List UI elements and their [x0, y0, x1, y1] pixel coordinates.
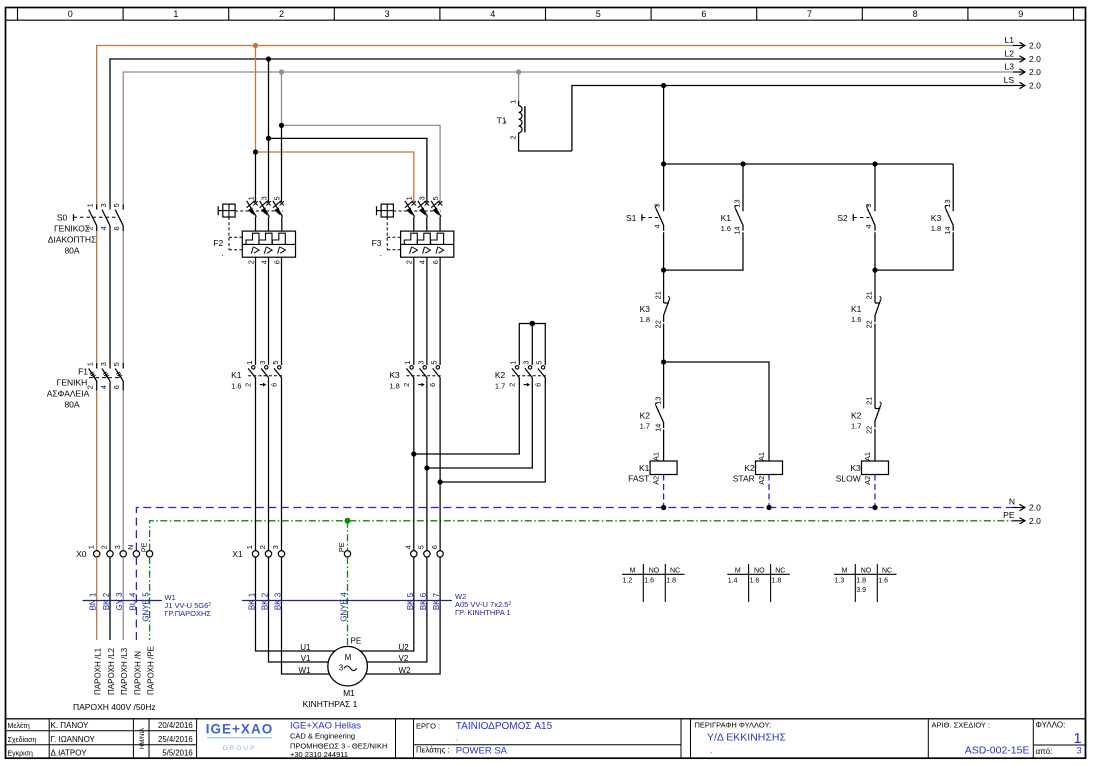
- svg-text:1.6: 1.6: [721, 224, 731, 233]
- svg-text:2: 2: [86, 226, 95, 230]
- svg-text:13: 13: [733, 199, 742, 207]
- cable W1 line: [83, 600, 163, 602]
- main switch S0 poles: [89, 210, 97, 226]
- svg-text:2: 2: [508, 135, 517, 139]
- svg-text:2: 2: [86, 385, 95, 389]
- svg-text:BK 7: BK 7: [432, 592, 441, 610]
- svg-text:W1: W1: [299, 666, 312, 675]
- svg-text:FAST: FAST: [628, 474, 649, 484]
- svg-text:1: 1: [86, 203, 95, 207]
- svg-text:1.6: 1.6: [231, 381, 241, 390]
- svg-text:4: 4: [404, 545, 413, 549]
- transformer T1: [519, 106, 522, 133]
- wire X1-2 to motor V1: [269, 557, 329, 662]
- svg-text:2: 2: [402, 383, 411, 387]
- wire L2 drop to F2/F3: [268, 59, 270, 138]
- wire F2 to K1: [255, 257, 257, 365]
- svg-text:L2: L2: [1005, 49, 1015, 59]
- svg-text:K3: K3: [389, 370, 400, 380]
- wire X0 to supply /N: [135, 557, 137, 640]
- wire L1 bus: [97, 46, 1013, 205]
- wire F1 to X0 /L1: [96, 391, 98, 551]
- svg-text:από:: από:: [1036, 747, 1053, 756]
- svg-text:LS: LS: [1004, 75, 1015, 85]
- wire X0 to supply /L1: [96, 557, 98, 640]
- wire X1-4 to motor U2: [360, 557, 414, 651]
- svg-text:9: 9: [1018, 9, 1023, 19]
- svg-text:S0: S0: [57, 212, 68, 222]
- svg-text:BK 2: BK 2: [261, 592, 270, 610]
- svg-text:BU 4: BU 4: [128, 592, 137, 610]
- svg-text:2: 2: [279, 9, 284, 19]
- svg-text:T1: T1: [497, 116, 507, 126]
- svg-text:ΠΑΡΟΧΗ /N: ΠΑΡΟΧΗ /N: [133, 651, 142, 695]
- title block: [6, 719, 1086, 758]
- svg-text:CAD & Engineering: CAD & Engineering: [290, 731, 355, 740]
- wire S2 riser: [874, 164, 876, 211]
- svg-text:4: 4: [99, 385, 108, 389]
- svg-text:6: 6: [273, 260, 282, 264]
- svg-text:1.6: 1.6: [750, 577, 760, 584]
- wire S0 to F1 phase L2: [109, 231, 111, 363]
- node branch S1: [661, 161, 666, 166]
- svg-text:6: 6: [431, 260, 440, 264]
- wire K3-14 down: [875, 232, 953, 270]
- svg-text:NC: NC: [670, 567, 680, 574]
- svg-text:M: M: [735, 567, 741, 574]
- svg-text:3.9: 3.9: [856, 587, 866, 594]
- svg-text:4: 4: [864, 224, 873, 228]
- wire F1 to X0 /L3: [122, 391, 124, 551]
- svg-text:22: 22: [865, 320, 874, 328]
- svg-text:5: 5: [596, 9, 601, 19]
- wire T1 secondary to LS: [519, 133, 572, 151]
- svg-text:ΠΑΡΟΧΗ /L1: ΠΑΡΟΧΗ /L1: [94, 647, 103, 695]
- svg-text:3: 3: [522, 361, 531, 365]
- svg-text:ΠΑΡΟΧΗ /PE: ΠΑΡΟΧΗ /PE: [147, 646, 156, 695]
- svg-text:BK 5: BK 5: [406, 592, 415, 610]
- svg-text:1.6: 1.6: [644, 577, 654, 584]
- wire control feeder: [663, 86, 665, 212]
- svg-text:BN 1: BN 1: [89, 592, 98, 610]
- node K2 on N bus: [766, 505, 771, 510]
- svg-text:IGE+XAO: IGE+XAO: [206, 722, 273, 737]
- svg-text:Μελέτη: Μελέτη: [8, 722, 30, 730]
- svg-text:5: 5: [112, 203, 121, 207]
- wire X1-5 to motor V2: [367, 557, 427, 662]
- svg-text:BK 3: BK 3: [274, 592, 283, 610]
- wire PE bus: [150, 521, 1013, 551]
- svg-text:3: 3: [339, 664, 344, 673]
- contact reference table at 727.3: [727, 573, 790, 575]
- svg-text:ΓΡ. ΚΙΝΗΤΗΡΑ 1: ΓΡ. ΚΙΝΗΤΗΡΑ 1: [455, 608, 511, 617]
- F2 overload box: [242, 231, 295, 257]
- svg-text:2: 2: [244, 383, 253, 387]
- svg-text:2.0: 2.0: [1029, 516, 1041, 526]
- svg-text:3: 3: [385, 9, 390, 19]
- svg-text:3: 3: [864, 204, 873, 208]
- svg-text:2.0: 2.0: [1029, 54, 1041, 64]
- svg-text:1.7: 1.7: [640, 421, 650, 430]
- svg-text:1.6: 1.6: [878, 577, 888, 584]
- svg-text:22: 22: [865, 426, 874, 434]
- node L1 branch: [253, 149, 258, 154]
- svg-text:1: 1: [403, 361, 412, 365]
- svg-text:BK 1: BK 1: [248, 592, 257, 610]
- svg-text:ΠΑΡΟΧΗ 400V /50Hz: ΠΑΡΟΧΗ 400V /50Hz: [73, 702, 156, 712]
- svg-text:2: 2: [258, 545, 267, 549]
- wire branch to K2 coil: [664, 362, 769, 461]
- svg-text:21: 21: [865, 397, 874, 405]
- coil K1: [650, 461, 677, 475]
- svg-text:ΓΕΝΙΚΟΣ: ΓΕΝΙΚΟΣ: [54, 224, 90, 234]
- svg-text:V1: V1: [301, 654, 311, 663]
- svg-text:NO: NO: [754, 567, 765, 574]
- svg-text:21: 21: [865, 291, 874, 299]
- svg-text:PE: PE: [139, 542, 148, 552]
- node branch to K2 coil: [661, 359, 666, 364]
- svg-text:.: .: [710, 745, 712, 755]
- svg-text:4: 4: [490, 9, 495, 19]
- wire K1 coil to N: [663, 475, 665, 508]
- node K3-K2 junction 3: [438, 479, 443, 484]
- svg-text:1.3: 1.3: [835, 577, 845, 584]
- wire K2 star bridge: [519, 324, 545, 366]
- svg-text:GY 3: GY 3: [115, 592, 124, 611]
- node K3-K2 junction 2: [424, 465, 429, 470]
- svg-text:3: 3: [416, 361, 425, 365]
- svg-text:ΗΜ/ΝΙΑ: ΗΜ/ΝΙΑ: [140, 728, 146, 749]
- svg-text:S2: S2: [837, 213, 848, 223]
- svg-text:K3: K3: [850, 463, 861, 473]
- svg-text:F2: F2: [213, 238, 223, 248]
- svg-text:6: 6: [112, 385, 121, 389]
- svg-text:80A: 80A: [64, 246, 79, 256]
- node L3-F2 tap: [279, 69, 284, 74]
- svg-text:BK 2: BK 2: [102, 592, 111, 610]
- F3 overload box: [401, 231, 454, 257]
- svg-text:K1: K1: [851, 304, 862, 314]
- wire L2 bus: [110, 59, 1013, 205]
- svg-text:ΔΙΑΚΟΠΤΗΣ: ΔΙΑΚΟΠΤΗΣ: [48, 235, 96, 245]
- svg-text:5: 5: [431, 196, 440, 200]
- svg-text:X0: X0: [76, 549, 87, 559]
- wire S2 down: [874, 232, 876, 303]
- svg-text:U2: U2: [399, 643, 410, 652]
- svg-text:ΦΥΛΛΟ:: ΦΥΛΛΟ:: [1036, 721, 1066, 730]
- node PE to motor: [345, 518, 351, 524]
- svg-text:3: 3: [99, 203, 108, 207]
- node L2-F2 tap: [266, 56, 271, 61]
- svg-text:1.2: 1.2: [623, 577, 633, 584]
- node branch S2: [872, 161, 877, 166]
- motor breaker F3 poles 1-3-5: [412, 201, 416, 205]
- svg-text:2: 2: [246, 260, 255, 264]
- svg-text:3: 3: [418, 196, 427, 200]
- svg-text:M: M: [630, 567, 636, 574]
- svg-text:6: 6: [533, 383, 542, 387]
- svg-text:1: 1: [86, 545, 95, 549]
- S0 terminal stubs: [96, 205, 98, 210]
- svg-text:6: 6: [701, 9, 706, 19]
- contact reference table at 622: [622, 573, 685, 575]
- svg-text:NC: NC: [775, 567, 785, 574]
- wire K1-22 down: [874, 324, 876, 409]
- svg-text:14: 14: [733, 226, 742, 234]
- contactor K2 main contacts: [515, 366, 518, 369]
- svg-text:5: 5: [271, 361, 280, 365]
- F2 test button box: [218, 210, 223, 212]
- svg-text:GNYE 4: GNYE 4: [340, 592, 349, 622]
- svg-text:ΠΕΡΙΓΡΑΦΗ ΦΥΛΛΟΥ:: ΠΕΡΙΓΡΑΦΗ ΦΥΛΛΟΥ:: [695, 720, 772, 729]
- svg-text:NO: NO: [649, 567, 660, 574]
- svg-text:1: 1: [86, 362, 95, 366]
- svg-text:ΚΙΝΗΤΗΡΑΣ 1: ΚΙΝΗΤΗΡΑΣ 1: [303, 699, 358, 709]
- motor M1: [328, 646, 368, 686]
- svg-text:3: 3: [271, 545, 280, 549]
- svg-text:Υ/Δ ΕΚΚΙΝΗΣΗΣ: Υ/Δ ΕΚΚΙΝΗΣΗΣ: [707, 732, 786, 744]
- svg-text:K1: K1: [639, 463, 650, 473]
- svg-text:8: 8: [913, 9, 918, 19]
- svg-text:1.8: 1.8: [389, 381, 399, 390]
- cable W2 line: [242, 600, 452, 602]
- wire PE to motor: [347, 557, 349, 646]
- wire L1 drop to F2/F3: [255, 46, 257, 153]
- svg-text:14: 14: [653, 424, 662, 432]
- node S1/K1 join: [661, 268, 666, 273]
- svg-text:BK 6: BK 6: [419, 592, 428, 610]
- svg-text:ΠΑΡΟΧΗ /L3: ΠΑΡΟΧΗ /L3: [120, 647, 129, 695]
- pushbutton S2: [868, 209, 876, 231]
- wire K3-13 riser: [952, 164, 954, 211]
- svg-text:.: .: [456, 733, 458, 743]
- svg-text:4: 4: [99, 226, 108, 230]
- svg-text:3: 3: [259, 196, 268, 200]
- svg-text:POWER SA: POWER SA: [456, 745, 508, 756]
- svg-text:1.4: 1.4: [728, 577, 738, 584]
- wire K3 coil to N: [874, 475, 876, 508]
- svg-text:6: 6: [430, 545, 439, 549]
- svg-text:IGE+XAO Hellas: IGE+XAO Hellas: [290, 721, 361, 732]
- svg-text:L1: L1: [1005, 35, 1015, 45]
- svg-text:F1: F1: [78, 366, 88, 376]
- svg-text:4: 4: [652, 224, 661, 228]
- svg-text:ΤΑΙΝΙΟΔΡΟΜΟΣ A15: ΤΑΙΝΙΟΔΡΟΜΟΣ A15: [456, 721, 553, 732]
- svg-text:STAR: STAR: [733, 474, 755, 484]
- svg-text:K2: K2: [640, 410, 651, 420]
- svg-text:2.0: 2.0: [1029, 81, 1041, 91]
- svg-text:1.8: 1.8: [640, 315, 650, 324]
- wire X0 to supply /L2: [109, 557, 111, 640]
- svg-text:Κ. ΠΑΝΟΥ: Κ. ΠΑΝΟΥ: [51, 721, 90, 730]
- svg-text:2.0: 2.0: [1029, 67, 1041, 77]
- svg-text:ΓΕΝΙΚΗ: ΓΕΝΙΚΗ: [57, 377, 88, 387]
- wire K1 to X1: [255, 378, 257, 551]
- svg-text:S1: S1: [626, 213, 637, 223]
- svg-text:2.0: 2.0: [1029, 503, 1041, 513]
- svg-text:5: 5: [112, 362, 121, 366]
- svg-text:L3: L3: [1005, 62, 1015, 72]
- svg-text:K1: K1: [721, 213, 732, 223]
- svg-text:4: 4: [259, 260, 268, 264]
- svg-text:0: 0: [68, 9, 73, 19]
- svg-text:W2: W2: [399, 666, 412, 675]
- svg-text:3: 3: [99, 362, 108, 366]
- node L1-F2 tap: [253, 43, 258, 48]
- svg-text:Εγκριση: Εγκριση: [8, 750, 34, 757]
- svg-text:2: 2: [405, 260, 414, 264]
- svg-text:M: M: [345, 653, 352, 662]
- svg-text:K2: K2: [495, 370, 506, 380]
- svg-text:1.7: 1.7: [495, 381, 505, 390]
- svg-text:GROUP: GROUP: [223, 745, 257, 752]
- svg-text:X1: X1: [232, 549, 243, 559]
- contact K3 13-14: [946, 209, 954, 231]
- svg-text:7: 7: [807, 9, 812, 19]
- wire K3-22 down: [663, 324, 665, 409]
- wire K2 to K3 pole3: [440, 378, 545, 483]
- wire L3 drop to F2/F3: [281, 72, 283, 125]
- svg-text:ΓΡ.ΠΑΡΟΧΗΣ: ΓΡ.ΠΑΡΟΧΗΣ: [165, 609, 212, 618]
- contact reference table at 834: [834, 573, 897, 575]
- contact K2 13-14: [656, 406, 664, 428]
- svg-text:1: 1: [508, 100, 517, 104]
- svg-text:20/4/2016: 20/4/2016: [158, 721, 193, 730]
- svg-text:6: 6: [270, 383, 279, 387]
- svg-text:K2: K2: [744, 463, 755, 473]
- wire K2 to K3 pole1: [414, 378, 520, 455]
- svg-text:6: 6: [428, 383, 437, 387]
- svg-text:ΠΑΡΟΧΗ /L2: ΠΑΡΟΧΗ /L2: [107, 647, 116, 695]
- svg-text:Δ.ΙΑΤΡΟΥ: Δ.ΙΑΤΡΟΥ: [51, 748, 88, 757]
- node S2/K3 join: [872, 268, 877, 273]
- svg-text:K3: K3: [640, 304, 651, 314]
- wire S0 to F1 phase L1: [96, 231, 98, 363]
- svg-text:SLOW: SLOW: [836, 474, 861, 484]
- svg-text:GNYE 5: GNYE 5: [142, 592, 151, 622]
- svg-text:3: 3: [258, 361, 267, 365]
- wire X0 to supply /PE: [149, 557, 151, 640]
- svg-text:2: 2: [100, 545, 109, 549]
- wire control branch top: [664, 163, 954, 165]
- svg-text:A1: A1: [757, 452, 766, 461]
- svg-text:ΑΡΙΘ. ΣΧΕΔΙΟΥ :: ΑΡΙΘ. ΣΧΕΔΙΟΥ :: [932, 720, 990, 729]
- svg-text:3: 3: [1077, 746, 1082, 756]
- svg-text:Πελάτης :: Πελάτης :: [416, 746, 450, 755]
- svg-text:K1: K1: [231, 370, 242, 380]
- svg-text:.: .: [380, 249, 382, 258]
- svg-text:1.7: 1.7: [851, 421, 861, 430]
- node branch K1-13: [740, 161, 745, 166]
- wire X1-6 to motor W2: [365, 557, 440, 674]
- wire S1 down: [663, 232, 665, 303]
- svg-text:ΕΡΓΟ :: ΕΡΓΟ :: [416, 721, 440, 730]
- svg-text:A2: A2: [863, 476, 872, 485]
- svg-text:1.8: 1.8: [772, 577, 782, 584]
- svg-text:NO: NO: [861, 567, 872, 574]
- svg-text:A1: A1: [652, 452, 661, 461]
- wire X0 to supply /L3: [122, 557, 124, 640]
- S0 linkage: [74, 216, 93, 218]
- contact K1 13-14: [736, 209, 744, 231]
- svg-text:1: 1: [245, 545, 254, 549]
- svg-text:PE: PE: [337, 542, 346, 552]
- svg-text:Σχεδίαση: Σχεδίαση: [8, 736, 37, 744]
- node L3-T1 tap: [516, 69, 521, 74]
- svg-text:U1: U1: [300, 643, 311, 652]
- svg-text:1.6: 1.6: [851, 315, 861, 324]
- node L2 branch: [266, 136, 271, 141]
- coil K2: [756, 461, 783, 475]
- svg-text:A2: A2: [652, 476, 661, 485]
- svg-text:PE: PE: [1003, 510, 1015, 520]
- svg-text:K3: K3: [931, 213, 942, 223]
- svg-text:.: .: [221, 249, 223, 258]
- svg-text:PE: PE: [351, 637, 362, 646]
- svg-text:Γ. ΙΩΑΝΝΟΥ: Γ. ΙΩΑΝΝΟΥ: [51, 735, 96, 744]
- wire F3 to K3: [413, 257, 415, 365]
- svg-text:80A: 80A: [64, 399, 79, 409]
- svg-text:25/4/2016: 25/4/2016: [158, 735, 193, 744]
- svg-text:1: 1: [509, 361, 518, 365]
- node L3 branch: [279, 123, 284, 128]
- node K1 on N bus: [661, 505, 666, 510]
- wire to K1 coil: [663, 430, 665, 462]
- svg-text:ΑΣΦΑΛΕΙΑ: ΑΣΦΑΛΕΙΑ: [47, 388, 90, 398]
- svg-text:1: 1: [405, 196, 414, 200]
- wire X1-PE drop: [347, 521, 349, 551]
- svg-text:5/5/2016: 5/5/2016: [162, 748, 192, 757]
- svg-text:5: 5: [273, 196, 282, 200]
- svg-text:1: 1: [245, 361, 254, 365]
- svg-text:N: N: [126, 545, 135, 550]
- svg-text:5: 5: [535, 361, 544, 365]
- contact K3 21-22 NC: [664, 302, 669, 304]
- node K3-K2 junction 1: [411, 451, 416, 456]
- wire K2 to K3 pole2: [427, 378, 532, 469]
- wire K2 coil to N: [768, 475, 770, 508]
- wire S0 to F1 phase L3: [122, 231, 124, 363]
- pushbutton S1: [656, 209, 664, 231]
- wire K1-14 down: [664, 232, 743, 270]
- wire K3 to X1: [413, 378, 415, 551]
- wire F1 to X0 /L2: [109, 391, 111, 551]
- svg-text:A2: A2: [757, 476, 766, 485]
- svg-text:14: 14: [943, 226, 952, 234]
- node K3 on N bus: [872, 505, 877, 510]
- node star point: [530, 321, 536, 327]
- svg-text:NC: NC: [882, 567, 892, 574]
- wire LS control bus: [572, 86, 1013, 152]
- svg-text:3: 3: [652, 204, 661, 208]
- wire to K3 coil: [874, 429, 876, 461]
- svg-text:1.8: 1.8: [931, 224, 941, 233]
- svg-text:6: 6: [112, 226, 121, 230]
- coil K3: [862, 461, 889, 475]
- svg-text:1.8: 1.8: [856, 577, 866, 584]
- svg-text:ASD-002-15E: ASD-002-15E: [965, 745, 1030, 757]
- svg-text:5: 5: [417, 545, 426, 549]
- svg-text:A1: A1: [863, 452, 872, 461]
- wire N bus: [136, 508, 1013, 551]
- svg-text:1: 1: [246, 196, 255, 200]
- svg-text:21: 21: [653, 291, 662, 299]
- wire L3 to T1: [518, 72, 520, 101]
- wire K1-13 riser: [742, 164, 744, 211]
- wire X1-3 to motor W1: [282, 557, 331, 674]
- F3 test button box: [377, 210, 382, 212]
- svg-text:13: 13: [653, 397, 662, 405]
